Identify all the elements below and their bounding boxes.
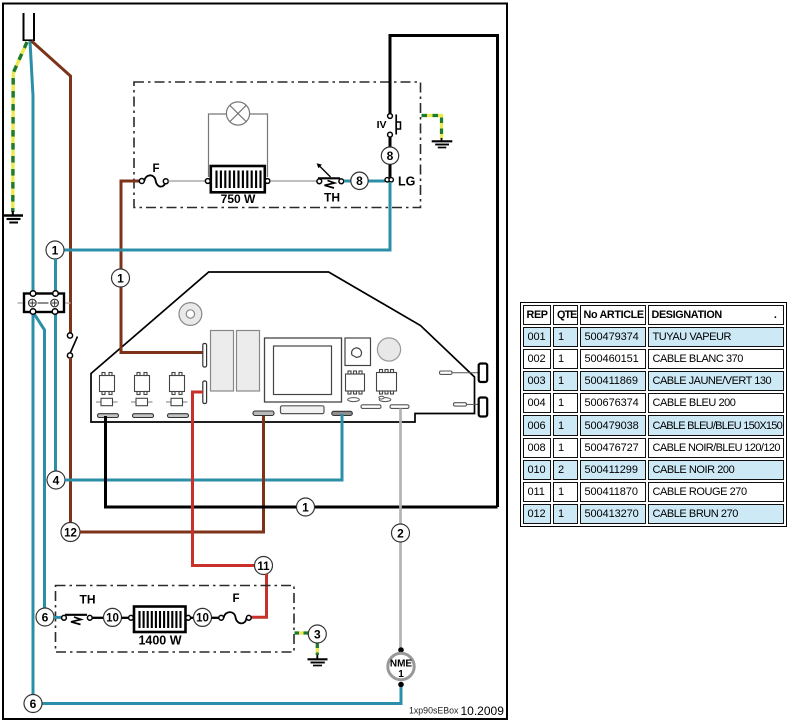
svg-text:750 W: 750 W (221, 192, 256, 206)
svg-text:TH: TH (324, 191, 340, 205)
wire yellow/green to right earth (422, 116, 442, 140)
resistor R 750 W heating element (205, 166, 269, 206)
wire blue node 4 to electronic box (65, 414, 342, 480)
svg-text:4: 4 (53, 473, 60, 487)
ground (left earth symbol) (3, 211, 23, 223)
relay K2 (237, 331, 260, 392)
node 12 (61, 523, 80, 542)
connector pin bar (brown input) (203, 344, 207, 368)
svg-text:6: 6 (42, 610, 49, 624)
svg-text:1400 W: 1400 W (138, 634, 181, 648)
pad small bar 1 (361, 405, 381, 409)
svg-text:1: 1 (117, 271, 124, 285)
wire black IV to node 8 (389, 137, 392, 147)
wire brown from plug down (32, 41, 71, 333)
wire thermostat to node 10 (92, 617, 103, 619)
wire black electronic box to right side (net 1) (106, 416, 498, 507)
lamp H1 parallel branch (209, 102, 268, 177)
ground (steam unit earth symbol) (308, 655, 328, 666)
regulator module (345, 338, 371, 366)
IC U5 (346, 371, 365, 394)
svg-text:8: 8 (356, 174, 363, 188)
wire blue terminal block left pin diagonal to steam unit (33, 312, 45, 608)
node 1 (blue wire) (46, 241, 64, 259)
svg-text:8: 8 (387, 149, 394, 163)
node 6 (steam unit inlet) (36, 608, 54, 626)
node 10 (right) (194, 608, 212, 626)
switch S1 on brown wire (67, 333, 77, 358)
resistor R 1400 W heating element (129, 607, 191, 648)
connector pin bar (red output) (203, 381, 207, 404)
wire yellow/green node 3 to earth (316, 644, 319, 656)
terminal block X1 (18, 291, 71, 315)
node 8 (blue wire) (351, 172, 368, 189)
wire element to node 10 (right) (191, 617, 194, 619)
node 1 (brown wire) (112, 269, 130, 287)
svg-text:11: 11 (257, 561, 270, 573)
svg-text:3: 3 (314, 627, 321, 641)
opto U3 (135, 373, 150, 395)
screw hole (179, 303, 202, 326)
wire gray fuse to element (168, 180, 207, 182)
opto U2 (100, 373, 115, 395)
pad 2 (133, 414, 154, 418)
svg-text:6: 6 (30, 697, 37, 711)
wire blue LG down and across to node 1 (64, 182, 390, 250)
resistor R2 (96, 398, 118, 405)
dash-dot enclosure (steam generator unit, bottom) (56, 586, 295, 653)
thermostat TH (iron) (317, 163, 344, 204)
svg-text:NME: NME (390, 659, 413, 670)
wire gray electronic box to pump NME (399, 409, 402, 650)
node 10 (left) (104, 608, 122, 626)
fuse F (iron) (139, 163, 168, 187)
svg-text:LG: LG (398, 175, 415, 189)
svg-text:1xp90sEBox: 1xp90sEBox (409, 706, 459, 716)
svg-text:10: 10 (106, 613, 119, 625)
svg-text:F: F (152, 163, 159, 175)
svg-text:F: F (232, 593, 239, 605)
wire node 10 to element (122, 617, 129, 619)
wire brown into iron unit to fuse F (121, 181, 203, 353)
pad ellipse 1 (348, 398, 360, 402)
wire blue node 6 to thermostat (54, 616, 62, 619)
wire yellow/green steam unit earth (295, 631, 309, 634)
wire blue from plug down left side (30, 41, 33, 695)
plug P mains connector (23, 13, 36, 40)
wire black from top frame to switch IV (390, 36, 498, 508)
connector lug right 2 (454, 398, 488, 417)
svg-text:10.2009: 10.2009 (461, 704, 505, 718)
connector LG (385, 175, 415, 189)
pad (brown wire) (253, 411, 274, 416)
node 6 (bottom) (24, 695, 42, 713)
node 4 (47, 471, 65, 489)
svg-text:1: 1 (398, 669, 404, 680)
ground (right upper earth symbol) (432, 138, 453, 148)
wire brown node 12 to electronic box (80, 416, 264, 532)
wire black node 8 to LG (389, 165, 392, 178)
electronic box U1 outline (91, 272, 475, 422)
wide connector pad (281, 406, 325, 414)
pad 3 (168, 414, 189, 418)
connector lug right 1 (440, 364, 488, 383)
resistor R4 (166, 398, 188, 405)
wire blue thermostat to node 8 (344, 180, 385, 183)
node 11 (255, 557, 273, 575)
wire yellow/green earth from plug to ground (13, 42, 27, 212)
svg-text:12: 12 (64, 528, 77, 540)
wire red node 11 to fuse (steam unit) (252, 574, 267, 617)
microcontroller module (265, 338, 342, 402)
node 3 (308, 625, 326, 643)
pad small bar 2 (gray wire) (390, 405, 409, 409)
fuse F (steam unit) (219, 593, 251, 623)
wire brown lower (to node 12) (69, 358, 72, 523)
wire node 10 to fuse F (steam unit) (212, 617, 219, 619)
wire blue terminal block right pin down to node 4 (54, 311, 57, 471)
svg-text:2: 2 (397, 526, 404, 540)
pump motor NME1 (388, 647, 414, 687)
thermostat TH (steam unit) (62, 593, 96, 625)
node 1 (black wire) (297, 498, 315, 516)
pad (black wire) (98, 414, 119, 418)
svg-text:10: 10 (196, 613, 209, 625)
parts list table (520, 302, 787, 527)
switch IV (377, 114, 401, 138)
dash-dot enclosure (iron unit, top) (134, 82, 421, 208)
svg-text:TH: TH (80, 593, 96, 607)
opto U4 (170, 373, 185, 395)
svg-text:1: 1 (302, 500, 309, 514)
capacitor C1 (gray disc) (377, 338, 400, 361)
relay K1 (211, 331, 234, 392)
svg-text:1: 1 (52, 243, 59, 257)
svg-text:IV: IV (377, 119, 387, 131)
IC U6 (377, 370, 397, 395)
node 2 (gray wire) (392, 524, 410, 542)
pad (blue wire) (332, 411, 353, 415)
pad ellipse 2 (379, 396, 391, 401)
wire red electronic box to node 11 (193, 392, 255, 566)
wire gray element to thermostat (270, 180, 317, 182)
wire blue pump to node 6 (bottom) (42, 687, 401, 704)
schematic frame (3, 4, 507, 720)
node 8 (black wire) (381, 147, 398, 164)
resistor R3 (131, 398, 153, 405)
wire blue node 1 down to terminal block (54, 259, 57, 294)
